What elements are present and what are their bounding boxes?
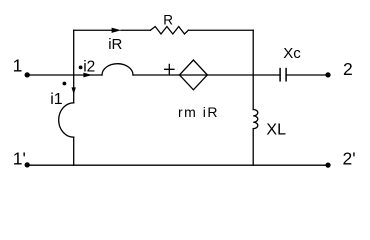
resistor R — [150, 27, 188, 35]
svg-text:rm iR: rm iR — [178, 104, 218, 120]
svg-text:i1: i1 — [50, 91, 63, 108]
polarity dot winding 2 — [79, 66, 83, 70]
svg-text:2': 2' — [343, 148, 356, 168]
arrow i2 current direction — [83, 73, 92, 78]
wire right branch lower — [252, 129, 254, 166]
svg-text:1': 1' — [13, 148, 26, 168]
wire diamond to capacitor — [207, 74, 280, 76]
svg-text:2: 2 — [343, 59, 353, 79]
wire bottom rail — [27, 164, 328, 166]
capacitor Xc right plate — [285, 69, 287, 81]
node terminal 1-prime dot — [25, 162, 30, 167]
wire through diamond — [180, 74, 208, 76]
wire middle to diamond — [133, 74, 180, 76]
node terminal 1 dot — [25, 72, 30, 77]
node terminal 2-prime dot — [325, 162, 330, 167]
svg-text:Xc: Xc — [283, 45, 301, 62]
svg-text:iR: iR — [108, 36, 122, 53]
wire top rail right segment — [188, 29, 253, 31]
wire right branch upper — [252, 30, 254, 109]
svg-text:1: 1 — [13, 55, 23, 75]
wire capacitor to terminal 2 — [286, 74, 328, 76]
wire left branch vertical — [73, 30, 75, 103]
polarity dot winding 1 — [63, 82, 67, 86]
inductor XL — [253, 110, 258, 129]
wire middle left segment — [27, 74, 102, 76]
svg-text:i2: i2 — [83, 58, 95, 75]
wire left branch lower stub — [73, 137, 75, 165]
wire top rail left segment — [74, 29, 112, 31]
inductor L1 (left coil) — [59, 103, 74, 137]
inductor L2 (hump on middle wire) — [102, 64, 133, 75]
arrow iR current direction — [112, 28, 122, 33]
dependent source U1 diamond — [180, 60, 208, 90]
node terminal 2 dot — [325, 72, 330, 77]
svg-text:XL: XL — [266, 121, 286, 138]
arrow i1 current direction — [72, 87, 76, 94]
plus polarity sign — [165, 64, 174, 74]
capacitor Xc left plate — [279, 69, 281, 81]
wire top rail middle segment — [121, 29, 150, 31]
svg-text:R: R — [163, 12, 173, 27]
